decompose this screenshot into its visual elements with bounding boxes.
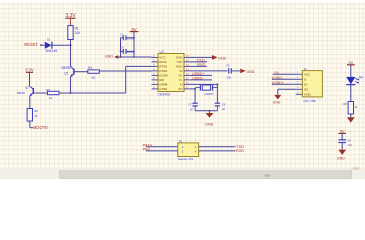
svg-text:GND: GND [246,70,254,74]
svg-text:C1: C1 [120,32,124,36]
svg-text:PA9: PA9 [143,147,150,152]
svg-text:CTS#: CTS# [159,87,167,91]
svg-text:GND: GND [337,157,345,161]
svg-text:C4: C4 [120,46,124,50]
svg-text:GND: GND [218,57,226,61]
svg-text:BOOT0: BOOT0 [33,125,48,130]
svg-text:Q1: Q1 [64,72,68,76]
svg-text:104: 104 [347,143,352,147]
svg-text:GND: GND [353,167,359,171]
svg-text:VCC: VCC [304,73,311,77]
svg-text:USBD-: USBD- [192,76,204,80]
svg-text:106: 106 [226,75,231,79]
svg-text:22: 22 [222,107,225,111]
svg-text:J2: J2 [304,67,307,71]
svg-text:1K: 1K [34,114,38,118]
svg-text:1N4148: 1N4148 [45,49,57,53]
svg-text:22: 22 [190,108,193,112]
svg-text:DTR#: DTR# [159,69,167,73]
svg-text:Q2: Q2 [25,86,29,90]
svg-text:R232: R232 [159,60,167,64]
svg-text:R5: R5 [46,88,50,92]
svg-text:XO: XO [178,87,183,91]
svg-text:12MHz: 12MHz [204,92,214,96]
svg-text:C7: C7 [188,103,192,107]
svg-text:D-: D- [179,78,182,82]
svg-text:Mini USB: Mini USB [304,99,316,103]
svg-text:D1: D1 [47,38,51,42]
svg-text:RXD: RXD [176,65,183,69]
svg-text:R6: R6 [344,102,348,106]
svg-text:VCC: VCC [159,56,166,60]
svg-text:1K: 1K [49,96,53,100]
svg-text:U2: U2 [160,50,164,54]
svg-text:RI#: RI# [159,78,164,82]
svg-text:S8050: S8050 [61,66,71,70]
svg-text:XI: XI [180,83,183,87]
svg-text:D+: D+ [304,83,308,87]
svg-text:RESET: RESET [24,42,38,47]
svg-text:RXD: RXD [236,148,244,153]
svg-text:R4: R4 [88,66,92,70]
svg-text:R1: R1 [75,26,79,30]
svg-text:C8: C8 [347,138,351,142]
svg-text:DSR#: DSR# [159,83,167,87]
svg-text:GND: GND [273,101,281,105]
svg-text:D+: D+ [179,74,183,78]
svg-text:GND: GND [205,123,213,127]
svg-text:GND: GND [176,56,184,60]
svg-text:P1: P1 [179,139,183,143]
svg-text:V3: V3 [179,69,183,73]
svg-text:D-: D- [304,78,307,82]
svg-text:R3: R3 [34,109,38,113]
svg-text:D4: D4 [359,76,363,80]
svg-text:5V: 5V [274,71,279,75]
svg-text:10K: 10K [75,31,82,35]
svg-text:C5: C5 [226,64,230,68]
svg-text:USBD+: USBD+ [272,81,284,85]
svg-text:GND: GND [105,55,114,59]
svg-text:RTS#: RTS# [159,65,167,69]
svg-text:S8050: S8050 [17,91,26,95]
svg-text:USBD-: USBD- [272,76,284,80]
svg-text:RXD: RXD [197,62,206,67]
svg-text:C6: C6 [222,102,226,106]
svg-text:DCD#: DCD# [159,74,167,78]
svg-text:CH340G: CH340G [158,92,171,96]
svg-text:Header 2X2: Header 2X2 [178,157,194,161]
svg-text:TXD: TXD [177,60,184,64]
svg-text:USBD+: USBD+ [192,72,204,76]
svg-text:GND: GND [304,93,312,97]
